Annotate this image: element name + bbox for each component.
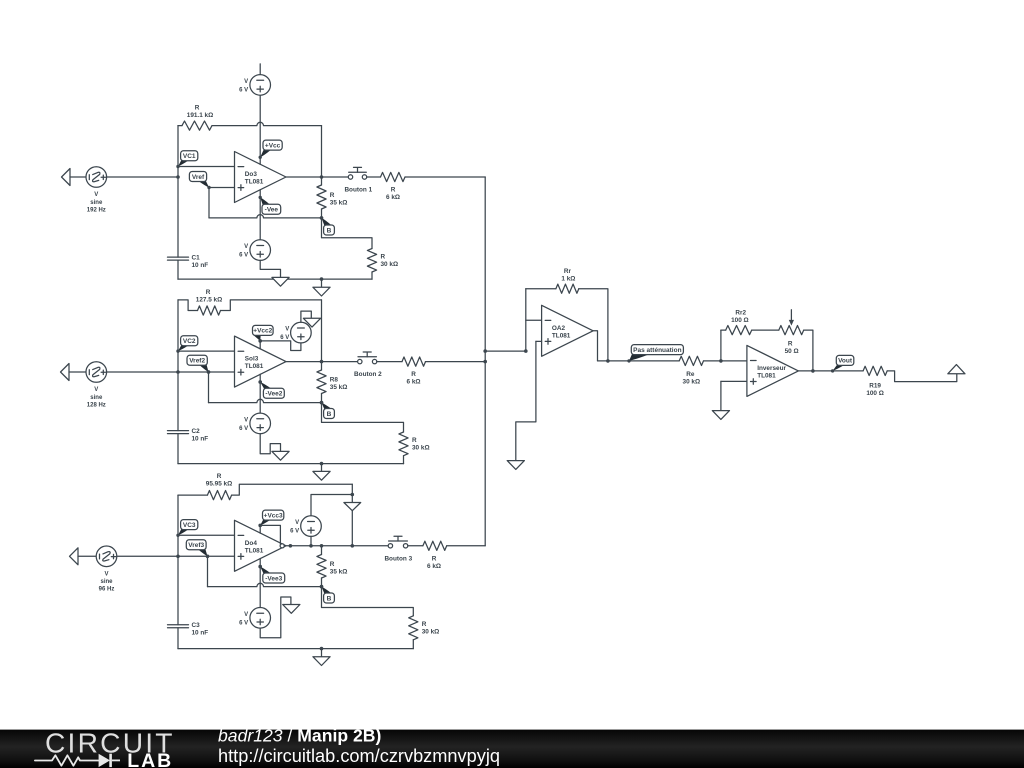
svg-text:6 V: 6 V (239, 426, 248, 432)
svg-text:V: V (104, 572, 108, 578)
wire (gnd stub) (321, 279, 323, 287)
source V4 6 V (+Vcc2 supply) (280, 322, 311, 343)
wire (inverting input, block1) (178, 166, 235, 168)
wire (B to R30k, block2) (322, 403, 404, 432)
wire (to output port) (887, 371, 957, 382)
wire (V5 to ground jog) (260, 434, 280, 454)
node B (block1) (320, 216, 324, 220)
wire (+Vcc pin stub, block3) (259, 525, 261, 533)
port OUT (up arrow) (948, 365, 965, 374)
wire (non-inverting input, block1) (209, 187, 235, 189)
svg-text:B: B (327, 411, 332, 418)
node (V6 to output) (309, 544, 313, 548)
svg-text:50 Ω: 50 Ω (785, 348, 799, 355)
node (OA2 out/fb junction) (606, 359, 610, 363)
wire (Vcc supply down to pin) (259, 95, 261, 157)
label Vref (189, 172, 210, 190)
svg-text:10 nF: 10 nF (192, 262, 209, 269)
wire (plus feedback across with hop, block3) (208, 583, 322, 586)
wire (412, 640, 414, 649)
node (+Vcc3 pin) (258, 524, 262, 528)
wire (feedback right with hop) (212, 122, 322, 125)
node (Vref2 tap) (207, 370, 211, 374)
node (port tap on output) (351, 544, 355, 548)
wire (plus feedback down) (208, 188, 210, 218)
wire (main to + input, block2) (107, 371, 235, 373)
wire (V4 top hook) (301, 311, 311, 322)
wire (321, 126, 323, 177)
wire (+Vcc2 to source) (260, 341, 301, 351)
source V sine 96 Hz (96, 546, 117, 593)
node (inv out/fb junction) (811, 369, 815, 373)
resistor R 35 k (block3) (317, 555, 347, 579)
wire (321, 300, 323, 362)
label Vref2 (187, 355, 210, 373)
wire (op-amp out, block3) (284, 545, 388, 547)
wire (inverting input, block3) (178, 534, 235, 536)
svg-text:10 nF: 10 nF (192, 630, 209, 637)
svg-text:35 kΩ: 35 kΩ (330, 384, 348, 391)
svg-text:Vref: Vref (192, 174, 205, 181)
node (Vref3 tap) (206, 555, 210, 559)
wire (bus to OA2 input) (485, 350, 526, 352)
wire (inv feedback riser) (720, 330, 722, 361)
resistor R 30 k (block3) (409, 616, 440, 640)
wire (feedback jog left) (178, 300, 198, 311)
wire (177, 434, 179, 464)
svg-text:V: V (94, 192, 98, 198)
node (feedback/V6 node) (351, 493, 355, 497)
svg-text:C1: C1 (192, 254, 201, 261)
svg-text:R: R (330, 561, 335, 568)
svg-text:VC1: VC1 (183, 153, 196, 160)
op-amp OA2 TL081 (542, 305, 594, 356)
wire (+Vcc pin stub, block2) (259, 341, 261, 349)
label +Vcc3 (259, 510, 284, 527)
svg-text:R: R (195, 105, 200, 112)
label +Vcc (259, 140, 283, 159)
wire (321, 578, 323, 587)
label Pas atténuation (627, 345, 683, 363)
svg-text:Do3: Do3 (245, 171, 258, 178)
node B (block2) (320, 401, 324, 405)
resistor R 35 k (block1) (317, 185, 347, 209)
svg-text:6 kΩ: 6 kΩ (427, 563, 441, 570)
wire (feedback left, block3) (178, 494, 207, 496)
svg-text:128 Hz: 128 Hz (87, 402, 106, 408)
wire (feedback left) (178, 125, 182, 127)
port IN2 (input terminal, block 2) (61, 364, 70, 381)
wire (inv feedback left) (721, 329, 726, 331)
wire (321, 209, 323, 218)
svg-text:30 kΩ: 30 kΩ (422, 629, 440, 636)
node (bus tap block2) (483, 360, 487, 364)
switch Bouton 1 (344, 167, 372, 193)
ground (block1 bottom) (313, 287, 330, 296)
wire (321, 546, 323, 555)
wire (-Vee pin stub, block3) (259, 559, 261, 567)
node A3 (input node, block3) (176, 555, 180, 559)
svg-text:R: R (391, 187, 396, 194)
op-amp Do4 TL081 (235, 520, 287, 571)
wire (-Vee3 down to V7) (259, 567, 261, 608)
svg-text:1 kΩ: 1 kΩ (561, 276, 575, 283)
wire (177, 628, 179, 649)
wire (B to R30k, block3) (322, 587, 414, 616)
label B (block1) (320, 216, 335, 235)
svg-text:R: R (432, 555, 437, 562)
svg-text:R: R (381, 254, 386, 261)
wire (inv output) (798, 370, 863, 372)
svg-text:127.5 kΩ: 127.5 kΩ (196, 297, 222, 304)
svg-text:B: B (327, 227, 332, 234)
source V2 6 V (top supply, block1) (239, 75, 270, 96)
wire (704, 360, 747, 362)
node (output/R8 junction, block2) (320, 360, 324, 364)
wire (to bus, block3) (447, 545, 486, 547)
svg-text:Sol3: Sol3 (245, 356, 259, 363)
node A1 (input node, block1) (176, 175, 180, 179)
svg-text:100 Ω: 100 Ω (731, 317, 749, 324)
svg-text:10 nF: 10 nF (192, 435, 209, 442)
wire (to bus, block2) (426, 361, 486, 363)
wire (-Vee down to V3) (259, 197, 261, 239)
svg-text:-Vee: -Vee (265, 207, 279, 214)
wire (-Vee2 down to V5) (259, 382, 261, 413)
svg-text:6 V: 6 V (239, 87, 248, 93)
svg-text:R: R (217, 473, 222, 480)
svg-text:35 kΩ: 35 kΩ (330, 200, 348, 207)
resistor Rr2 100 Ohm (726, 309, 752, 334)
svg-text:Inverseur: Inverseur (757, 365, 786, 372)
wire (Rr feedback right) (579, 289, 608, 361)
svg-text:OA2: OA2 (552, 325, 566, 332)
source V sine 192 Hz (86, 167, 107, 214)
source V7 6 V (-Vee3 supply) (239, 608, 270, 629)
svg-text:V: V (244, 612, 248, 618)
label B (block3) (320, 585, 335, 603)
wire (OA2 output jog) (593, 331, 597, 361)
svg-text:Bouton 1: Bouton 1 (344, 187, 372, 194)
wire (-Vee pin stub, block1) (259, 190, 261, 198)
terminal bubble (apex, block3) (280, 544, 284, 548)
resistor R 30 k (block2) (399, 432, 430, 456)
svg-text:30 kΩ: 30 kΩ (381, 261, 399, 268)
wire (69, 371, 86, 373)
svg-text:95.95 kΩ: 95.95 kΩ (206, 481, 232, 488)
svg-text:Re: Re (686, 371, 695, 378)
wire (177, 126, 179, 258)
svg-text:Rr2: Rr2 (735, 309, 746, 316)
port IN1 (input terminal, block 1) (62, 169, 71, 186)
svg-text:C2: C2 (192, 428, 201, 435)
switch Bouton 3 (384, 536, 412, 562)
node (bus to mixer tap) (483, 349, 487, 353)
op-amp Do3 TL081 (235, 152, 287, 203)
node (inverter input node) (719, 359, 723, 363)
svg-text:191.1 kΩ: 191.1 kΩ (187, 112, 213, 119)
svg-text:C3: C3 (192, 622, 201, 629)
potentiometer R 50 Ohm (779, 310, 804, 355)
resistor R19 100 Ohm (863, 366, 887, 397)
svg-text:192 Hz: 192 Hz (87, 207, 106, 213)
switch Bouton 2 (354, 352, 382, 378)
logo CircuitLab (35, 727, 175, 768)
svg-text:VC3: VC3 (183, 522, 196, 529)
svg-text:LAB: LAB (127, 750, 173, 768)
label +Vcc2 (253, 325, 274, 342)
footer bar (0, 730, 1024, 768)
resistor R 30 k (block1) (367, 249, 398, 273)
svg-text:V: V (94, 387, 98, 393)
wire (plus feedback across with hop, block2) (209, 399, 322, 402)
wire (+Vcc3 to output apex) (260, 525, 280, 544)
wire (main to + input, block3) (117, 555, 235, 557)
svg-text:R: R (206, 289, 211, 296)
wire (plus feedback down, block3) (207, 556, 209, 586)
svg-text:6 V: 6 V (290, 529, 299, 535)
svg-text:V: V (295, 520, 299, 526)
svg-text:V: V (244, 244, 248, 250)
node (output/R junction, block3) (320, 544, 324, 548)
svg-text:Bouton 2: Bouton 2 (354, 371, 382, 378)
wire (op-amp out, block2) (286, 361, 358, 363)
wire (70, 176, 86, 178)
wire (351, 484, 353, 494)
svg-text:6 V: 6 V (239, 253, 248, 259)
svg-text:TL081: TL081 (757, 373, 776, 380)
ground (block3 bottom) (313, 657, 330, 666)
svg-text:+Vcc3: +Vcc3 (264, 512, 283, 519)
label VC2 (176, 336, 198, 353)
wire (V3 to ground) (260, 260, 280, 277)
node (dot right of apex) (289, 544, 293, 548)
wire (+Vcc pin stub, block1) (259, 157, 261, 164)
svg-text:sine: sine (90, 200, 103, 206)
wire (-Vee pin stub, block2) (259, 374, 261, 382)
wire (321, 362, 323, 370)
wire (stub above V2) (259, 64, 261, 75)
wire (inv + input) (721, 380, 747, 382)
wire (bottom rail block1) (178, 278, 372, 280)
svg-text:R19: R19 (869, 383, 881, 390)
svg-text:+Vcc: +Vcc (265, 142, 281, 149)
svg-text:http://circuitlab.com/czrvbzmn: http://circuitlab.com/czrvbzmnvpyjq (218, 746, 500, 766)
wire (OA2 inverting riser) (525, 289, 527, 351)
svg-text:6 kΩ: 6 kΩ (406, 379, 420, 386)
svg-text:TL081: TL081 (245, 547, 264, 554)
resistor R 6 k (block3) (423, 541, 447, 570)
node (+Vcc2 pin) (258, 339, 262, 343)
wire (177, 260, 179, 279)
wire (gnd stub) (321, 649, 323, 657)
svg-text:R: R (330, 192, 335, 199)
svg-text:-Vee3: -Vee3 (265, 575, 282, 582)
svg-text:Pas atténuation: Pas atténuation (633, 347, 681, 354)
ground (V4 / +Vcc2) (303, 318, 320, 327)
wire (V6 top link) (311, 495, 352, 516)
wire (408, 545, 423, 547)
svg-text:V: V (244, 79, 248, 85)
wire (403, 456, 405, 464)
label -Vee2 (259, 380, 285, 398)
source V6 6 V (series, block3) (290, 516, 321, 537)
resistor Rr 1 k (OA2 feedback) (556, 268, 579, 293)
svg-text:Rr: Rr (564, 268, 572, 275)
wire (inv feedback right) (804, 330, 813, 371)
svg-text:6 kΩ: 6 kΩ (386, 194, 400, 201)
svg-text:VC2: VC2 (183, 338, 196, 345)
node (bottom rail gnd tap, block3) (320, 647, 324, 651)
label VC1 (176, 151, 198, 168)
wire (left vertical, block3) (177, 495, 179, 625)
wire (B to R30k) (322, 218, 373, 249)
wire (321, 394, 323, 403)
wire (inverting input, block2) (178, 350, 235, 352)
svg-text:Vref3: Vref3 (188, 542, 204, 549)
ground (V5 / -Vee2) (272, 451, 289, 460)
wire (V7 to ground jog) (260, 597, 291, 638)
label VC3 (176, 520, 198, 537)
resistor R 95.95 k (feedback, block3) (206, 473, 232, 500)
wire (OA2 + input) (536, 340, 542, 342)
node B (block3) (320, 585, 324, 589)
source V sine 128 Hz (86, 362, 107, 409)
wire (down through port) (351, 495, 353, 546)
wire (left vertical, block2) (177, 300, 179, 431)
op-amp Sol3 TL081 (235, 336, 287, 387)
resistor Re 30 k (679, 356, 703, 385)
svg-text:sine: sine (90, 395, 103, 401)
svg-text:6 V: 6 V (280, 335, 289, 341)
wire (bottom rail block3) (178, 648, 413, 650)
label -Vee3 (259, 565, 285, 583)
wire (310, 536, 312, 545)
wire (feedback jog right, block3) (232, 484, 353, 495)
svg-text:badr123 / Manip 2B): badr123 / Manip 2B) (218, 726, 381, 746)
svg-text:Bouton 3: Bouton 3 (384, 555, 412, 562)
source V3 6 V (bottom supply, block1) (239, 240, 270, 261)
node (OA2 input node) (524, 349, 528, 353)
svg-text:R: R (412, 437, 417, 444)
svg-text:+Vcc2: +Vcc2 (253, 328, 272, 335)
svg-text:V: V (285, 327, 289, 333)
capacitor C1 10 nF (168, 254, 209, 269)
svg-text:Vref2: Vref2 (189, 358, 205, 365)
svg-text:-Vee2: -Vee2 (265, 391, 282, 398)
svg-text:R: R (788, 341, 793, 348)
svg-text:96 Hz: 96 Hz (99, 587, 115, 593)
node (-Vee3 pin) (258, 565, 262, 569)
wire (plus feedback down, block2) (208, 372, 210, 403)
wire (gnd stub) (321, 464, 323, 472)
capacitor C2 10 nF (168, 428, 209, 443)
wire (371, 272, 373, 279)
wire (367, 176, 381, 178)
wire (Rr feedback left) (526, 288, 556, 290)
wire (feedback jog right) (221, 300, 322, 311)
svg-text:30 kΩ: 30 kΩ (412, 445, 430, 452)
resistor R 6 k (block1) (381, 172, 406, 201)
resistor R 191.1 k (feedback, block1) (182, 105, 213, 131)
wire (bottom rail block2) (178, 463, 404, 465)
svg-text:TL081: TL081 (245, 363, 264, 370)
svg-text:R: R (411, 371, 416, 378)
label -Vee (259, 196, 281, 215)
node (output/R junction, block1) (320, 175, 324, 179)
wire (OA2 + to ground) (516, 341, 536, 460)
port OUT3 (down arrow, block3) (344, 503, 361, 511)
ground (V7 / -Vee3) (283, 605, 300, 614)
wire (summing bus vertical) (484, 177, 486, 546)
label B (block2) (320, 401, 335, 419)
resistor R 6 k (block2) (402, 357, 426, 386)
wire (op-amp out, block1) (286, 176, 348, 178)
footer title text (218, 726, 381, 746)
svg-text:6 V: 6 V (239, 620, 248, 626)
op-amp Inverseur TL081 (747, 345, 799, 396)
wire (to bus) (405, 176, 485, 178)
capacitor C3 10 nF (168, 622, 209, 637)
svg-text:Do4: Do4 (245, 540, 258, 547)
ground (OA2 +) (507, 461, 524, 470)
svg-text:30 kΩ: 30 kΩ (683, 379, 701, 386)
source V5 6 V (-Vee2 supply) (239, 413, 270, 434)
port IN3 (input terminal, block 3) (70, 548, 79, 565)
svg-text:R: R (422, 621, 427, 628)
svg-text:sine: sine (100, 579, 113, 585)
svg-text:100 Ω: 100 Ω (866, 390, 884, 397)
ground (block2 bottom) (313, 471, 330, 480)
wire (107, 176, 178, 178)
svg-text:TL081: TL081 (245, 179, 264, 186)
wire (OA2 output) (598, 360, 680, 362)
resistor R8 35 k (block2) (317, 370, 347, 394)
resistor R 127.5 k (feedback, block2) (196, 289, 222, 315)
wire (78, 555, 96, 557)
label Vref3 (186, 540, 209, 558)
svg-text:35 kΩ: 35 kΩ (330, 569, 348, 576)
label Vout (831, 355, 854, 372)
wire (752, 329, 779, 331)
wire (377, 361, 402, 363)
node (bottom rail gnd tap, block2) (320, 462, 324, 466)
svg-text:Vout: Vout (838, 358, 853, 365)
wire (plus feedback across with hop) (209, 215, 322, 218)
svg-text:TL081: TL081 (552, 332, 571, 339)
wire (321, 177, 323, 185)
footer url text (218, 746, 500, 766)
svg-text:B: B (327, 595, 332, 602)
svg-text:R8: R8 (330, 377, 339, 384)
node (bottom rail gnd tap) (320, 277, 324, 281)
wire (OA2 inverting input) (526, 319, 542, 321)
svg-text:V: V (244, 417, 248, 423)
node A2 (input node, block2) (176, 370, 180, 374)
ground (V3, block1) (272, 277, 289, 286)
ground (inverter +) (712, 411, 729, 420)
node (-Vee2 pin) (258, 380, 262, 384)
wire (inv + to ground) (720, 381, 722, 410)
